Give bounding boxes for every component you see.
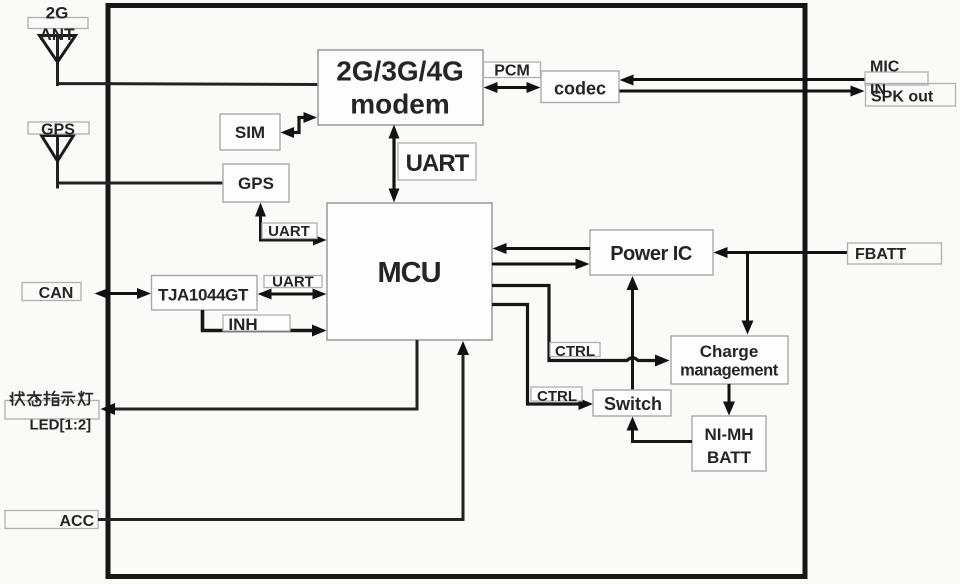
svg-text:INH: INH <box>228 315 257 334</box>
label UART (modem-MCU) <box>398 143 476 180</box>
svg-text:GPS: GPS <box>41 122 75 139</box>
svg-text:Switch: Switch <box>604 394 662 414</box>
svg-text:GPS: GPS <box>238 174 274 193</box>
label ACC <box>5 511 98 531</box>
outer border frame <box>108 6 805 577</box>
label status LED box <box>5 401 99 420</box>
label PCM <box>484 62 541 80</box>
svg-text:ANT: ANT <box>40 25 76 44</box>
svg-text:2G/3G/4G: 2G/3G/4G <box>336 56 464 87</box>
svg-text:BATT: BATT <box>707 448 752 467</box>
wire PCM modem-codec double arrow <box>484 82 541 93</box>
svg-text:modem: modem <box>350 89 450 120</box>
svg-text:SIM: SIM <box>235 123 265 142</box>
block codec <box>541 71 619 103</box>
label FBATT <box>848 243 942 264</box>
svg-text:2G: 2G <box>46 4 69 23</box>
label UART (GPS-MCU) <box>262 223 317 240</box>
wire FBATT branch to Charge management <box>742 253 754 335</box>
svg-text:NI-MH: NI-MH <box>704 425 753 444</box>
wire Charge management to NI-MH BATT <box>723 384 735 416</box>
block TJA1044GT <box>152 276 258 311</box>
svg-text:codec: codec <box>554 79 606 99</box>
wire SIM zigzag to modem <box>281 112 318 138</box>
svg-text:Charge: Charge <box>700 342 759 361</box>
svg-text:MIC: MIC <box>870 59 900 76</box>
block Power IC <box>590 230 713 275</box>
wire NI-MH BATT to Switch <box>627 417 693 442</box>
wire CTRL MCU to Switch <box>492 305 593 411</box>
block Charge management <box>671 336 788 384</box>
svg-text:ACC: ACC <box>60 513 95 530</box>
block GPS <box>223 164 289 202</box>
label UART (TJA-MCU) <box>264 274 322 291</box>
svg-text:CTRL: CTRL <box>537 388 577 405</box>
block SIM <box>220 114 280 150</box>
svg-text:management: management <box>680 362 779 380</box>
antenna ANT1 (2G) <box>40 36 76 63</box>
wire CTRL MCU to Charge management <box>492 286 670 367</box>
svg-text:TJA1044GT: TJA1044GT <box>158 286 249 305</box>
label box 2G ANT <box>28 18 88 29</box>
label CAN <box>22 283 81 303</box>
wire ACC to MCU <box>98 341 469 520</box>
wire Switch to Power IC <box>627 276 639 390</box>
wire GPS antenna feed to GPS box <box>58 136 224 189</box>
svg-text:CTRL: CTRL <box>555 343 595 360</box>
svg-text:UART: UART <box>406 150 470 177</box>
svg-text:MCU: MCU <box>377 257 440 289</box>
svg-text:SPK out: SPK out <box>871 89 934 106</box>
wire MIC in to codec <box>620 75 866 86</box>
svg-text:UART: UART <box>268 223 310 240</box>
label CTRL (switch) <box>531 387 582 405</box>
block Switch <box>593 390 671 416</box>
label INH <box>223 315 290 334</box>
wire UART GPS-MCU <box>255 203 327 246</box>
wire FBATT to Power IC <box>714 247 848 258</box>
svg-text:UART: UART <box>272 274 314 291</box>
svg-text:LED[1:2]: LED[1:2] <box>30 417 92 434</box>
block NI-MH BATT <box>692 416 766 471</box>
wire MCU to status LED <box>101 340 418 415</box>
label status LED chinese text 状态指示灯 <box>10 391 92 405</box>
label CTRL (charge) <box>550 343 600 361</box>
svg-text:PCM: PCM <box>494 63 530 80</box>
wire codec to SPK out <box>620 86 865 97</box>
block MCU <box>327 203 492 340</box>
wire MCU to Power IC <box>492 259 590 270</box>
antenna ANT2 (GPS) <box>42 136 74 162</box>
label box GPS antenna <box>28 122 89 134</box>
svg-text:FBATT: FBATT <box>855 246 906 263</box>
svg-text:CAN: CAN <box>39 285 74 302</box>
wire Power IC to MCU <box>493 243 591 254</box>
block 2G/3G/4G modem <box>318 50 483 125</box>
wire 2G antenna feed to modem <box>58 36 319 87</box>
wire UART TJA-MCU double arrow <box>258 289 327 300</box>
wire CAN-TJA double arrow <box>95 288 152 299</box>
svg-text:Power IC: Power IC <box>610 243 692 265</box>
label MIC IN <box>865 59 928 99</box>
label SPK out <box>866 84 956 107</box>
wire INH TJA-MCU <box>203 310 327 337</box>
wire UART modem-MCU double arrow <box>389 125 400 203</box>
